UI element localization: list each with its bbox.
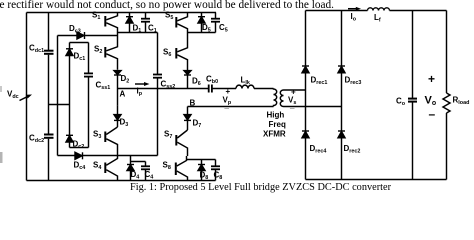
- resistor Rload: [443, 11, 450, 180]
- wire rectangle bottom: [70, 147, 89, 149]
- wire node A to transformer: [118, 88, 209, 90]
- diode D1: [126, 13, 133, 33]
- artifact left-edge smudge: [0, 152, 3, 163]
- diode Dc4: [75, 152, 83, 159]
- wire Dc4 branch: [58, 155, 118, 157]
- wire D4C4 top: [131, 156, 146, 162]
- transistor S8: [176, 156, 188, 181]
- diode D2: [114, 71, 121, 106]
- diode D7: [184, 107, 191, 131]
- wire rectangle top: [70, 42, 89, 44]
- transistor S5: [176, 13, 187, 33]
- wire secondary top: [284, 89, 306, 91]
- wire Lf to corner: [390, 10, 447, 12]
- wire midpoint: [49, 104, 70, 106]
- wire Dc3 branch: [58, 35, 118, 37]
- svg-text:High: High: [267, 111, 285, 120]
- wire secondary bottom: [284, 106, 342, 108]
- capacitor C5: [211, 13, 220, 33]
- transistor S4: [105, 156, 117, 181]
- wire bottom rail right: [306, 179, 447, 181]
- transistor S1: [105, 13, 117, 33]
- transformer primary winding: [274, 89, 277, 107]
- svg-text:+: +: [428, 72, 435, 86]
- wire rectifier left branch: [305, 11, 307, 180]
- svg-text:Freq: Freq: [269, 120, 286, 129]
- svg-text:_: _: [289, 101, 295, 110]
- svg-text:B: B: [190, 99, 196, 108]
- inductor Llk: [236, 85, 254, 88]
- capacitor C1: [141, 13, 150, 33]
- label Vp: [223, 87, 232, 110]
- transistor S7: [176, 130, 187, 156]
- wire S3-S4 junction: [118, 155, 158, 157]
- diode Drec1: [302, 66, 309, 73]
- wire D8C8 top: [187, 159, 216, 161]
- wire top rail left: [27, 12, 217, 14]
- svg-text:_: _: [224, 101, 230, 110]
- label Vs: [288, 87, 296, 110]
- capacitor Cdc2: [44, 105, 54, 181]
- diode Dc2: [66, 105, 73, 148]
- capacitor Co: [408, 11, 417, 180]
- transistor S3: [105, 127, 117, 156]
- wire node B: [188, 106, 274, 108]
- capacitor Cb0: [209, 85, 236, 93]
- diode D8: [198, 160, 205, 181]
- diode Drec3: [338, 66, 345, 73]
- diode Dc1: [66, 43, 73, 105]
- capacitor Css1: [84, 43, 93, 148]
- diode D6: [184, 71, 191, 89]
- svg-text:–: –: [429, 107, 436, 121]
- wire S1 emitter node: [118, 32, 158, 34]
- arrow Ip: [135, 82, 150, 86]
- wire Llk to primary: [254, 88, 274, 90]
- wire rectifier right branch: [341, 11, 343, 180]
- wire top rail right: [306, 10, 368, 12]
- diode D4: [127, 162, 134, 181]
- inductor Lf: [368, 8, 390, 11]
- diode D5: [198, 13, 205, 33]
- wire left rail: [26, 13, 28, 181]
- label High Freq XFMR: [263, 111, 286, 139]
- capacitor Css2: [153, 33, 162, 156]
- capacitor Cdc1: [44, 13, 54, 105]
- capacitor C8: [211, 160, 220, 181]
- arrow Vdc: [20, 95, 33, 101]
- diode Drec2: [338, 131, 345, 138]
- arrow Io: [348, 7, 361, 11]
- diode D3: [114, 105, 121, 127]
- transistor S6: [176, 33, 187, 71]
- diode Drec4: [302, 131, 309, 138]
- transistor S2: [105, 33, 117, 70]
- svg-text:e rectifier would not conduct,: e rectifier would not conduct, so no pow…: [0, 0, 334, 11]
- svg-text:A: A: [120, 90, 126, 99]
- wire bottom rail left: [27, 180, 216, 182]
- wire clamp vertical: [57, 36, 59, 156]
- transformer secondary winding: [280, 90, 283, 107]
- wire S5 emitter node: [188, 32, 216, 34]
- svg-text:Fig. 1: Proposed 5 Level Full: Fig. 1: Proposed 5 Level Full bridge ZVZ…: [130, 181, 391, 193]
- svg-text:XFMR: XFMR: [263, 130, 286, 139]
- diode Dc3: [77, 32, 85, 39]
- capacitor C4: [141, 162, 150, 181]
